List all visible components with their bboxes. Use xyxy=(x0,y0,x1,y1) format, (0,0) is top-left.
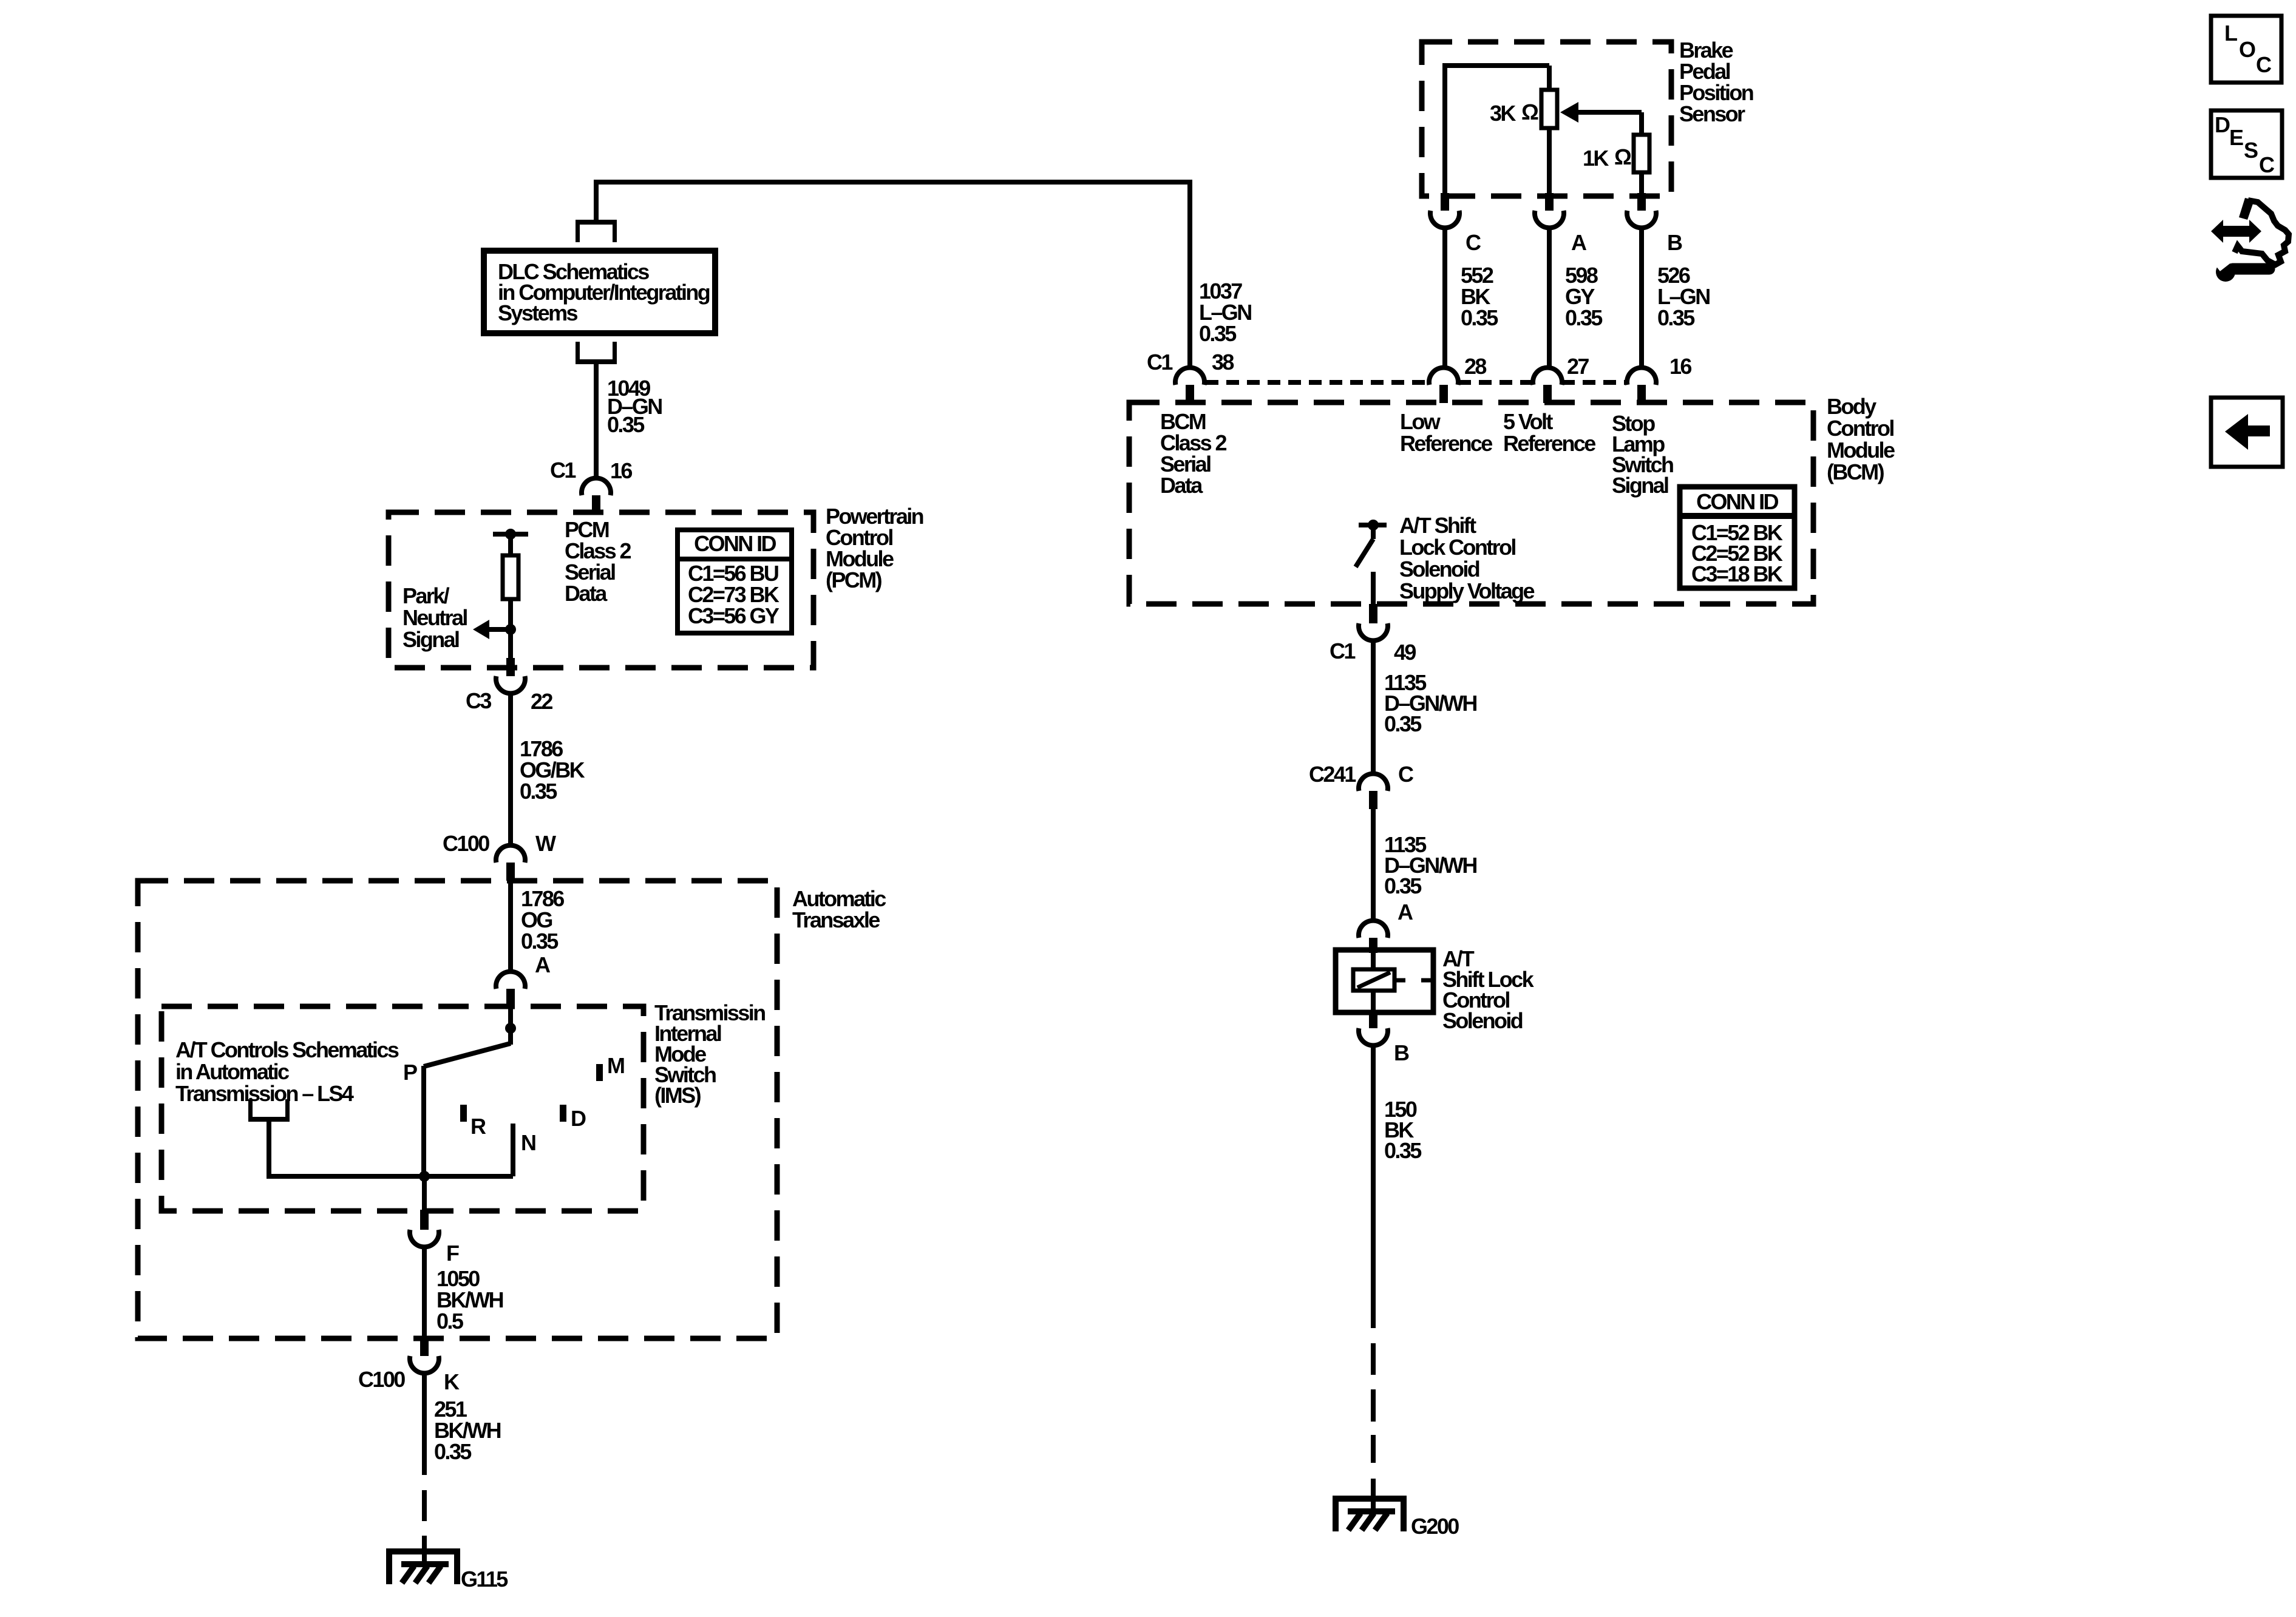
wire wire 251 BK/WH to G115 xyxy=(422,1373,427,1475)
wire BCM switch to pin 49 xyxy=(1371,572,1376,605)
svg-text:C: C xyxy=(2256,52,2272,77)
svg-text:K: K xyxy=(444,1369,460,1394)
connector solenoid pin A female half (dome) xyxy=(1359,921,1388,938)
svg-text:A: A xyxy=(535,952,551,977)
svg-text:28: 28 xyxy=(1464,354,1486,379)
svg-text:C3=18 BK: C3=18 BK xyxy=(1691,561,1783,586)
connector BCM pin 28 male pin (stub) xyxy=(1439,385,1448,403)
resistor PCM internal (Park/Neutral pull-up) xyxy=(503,555,518,599)
svg-text:A: A xyxy=(1398,900,1413,924)
svg-text:C3: C3 xyxy=(466,688,491,713)
svg-text:0.35: 0.35 xyxy=(520,779,557,804)
svg-text:22: 22 xyxy=(531,689,552,714)
svg-text:C100: C100 xyxy=(358,1367,405,1392)
svg-text:Low: Low xyxy=(1400,409,1441,434)
node IMS wiper node xyxy=(505,1023,516,1034)
connector C3 pin 22 male pin (stub) xyxy=(506,658,515,676)
in-line harness plug above DLC box xyxy=(576,220,617,225)
svg-text:0.35: 0.35 xyxy=(1384,873,1422,898)
svg-text:(PCM): (PCM) xyxy=(826,568,882,592)
svg-text:C: C xyxy=(2259,152,2275,177)
switch contact M xyxy=(596,1064,603,1081)
svg-text:(BCM): (BCM) xyxy=(1827,459,1884,484)
connector C100 pin W male pin (stub) xyxy=(506,863,515,881)
wire wire 1050 BK/WH inside transaxle xyxy=(422,1247,427,1340)
svg-text:C3=56 GY: C3=56 GY xyxy=(688,603,779,628)
svg-text:0.35: 0.35 xyxy=(1384,1138,1422,1163)
switch contact P xyxy=(421,1066,426,1176)
svg-text:P: P xyxy=(403,1060,417,1085)
svg-text:Transmission – LS4: Transmission – LS4 xyxy=(175,1081,354,1106)
connector BPP pin B male pin (stub) xyxy=(1637,193,1646,211)
connector BCM pin 38 female half (dome) xyxy=(1175,368,1204,385)
potentiometer wiper arrow xyxy=(1560,102,1578,123)
connector IMS pin A male pin (stub) xyxy=(506,989,515,1007)
A/T Shift Lock Control Solenoid L1 xyxy=(1336,950,1433,1012)
svg-text:Park/: Park/ xyxy=(402,583,450,608)
svg-text:Ω: Ω xyxy=(1614,144,1631,169)
Automatic Transaxle box xyxy=(138,881,777,1338)
svg-text:0.35: 0.35 xyxy=(1461,305,1498,330)
svg-text:A: A xyxy=(1571,230,1587,255)
Transmission Internal Mode Switch (IMS) box xyxy=(161,1006,644,1211)
svg-text:Lock Control: Lock Control xyxy=(1399,535,1515,560)
connector IMS pin F female half (cup) xyxy=(410,1230,439,1247)
node Park/Neutral signal tap xyxy=(505,624,516,635)
connector C241 pin C female half (dome) xyxy=(1359,774,1388,791)
svg-text:A/T Controls Schematics: A/T Controls Schematics xyxy=(175,1037,399,1062)
resistor 3K potentiometer element xyxy=(1541,90,1557,128)
svg-text:0.35: 0.35 xyxy=(521,929,559,954)
LOC navigation icon xyxy=(2211,16,2281,83)
connector solenoid pin B female half (cup) xyxy=(1359,1028,1388,1045)
Brake Pedal Position Sensor box xyxy=(1422,42,1671,196)
svg-text:B: B xyxy=(1394,1040,1409,1065)
svg-text:G115: G115 xyxy=(461,1567,508,1592)
connector BCM pin 49 female half (cup) xyxy=(1359,623,1388,640)
wire BPP internal left leg xyxy=(1442,66,1447,198)
wire wire 1786 OG/BK from PCM to C100 xyxy=(508,693,513,847)
connector BCM pin 28 female half (dome) xyxy=(1429,368,1458,385)
connector BCM pin 27 male pin (stub) xyxy=(1543,385,1552,403)
svg-text:C100: C100 xyxy=(443,831,489,856)
wire wire 150 BK solid part xyxy=(1371,1045,1376,1328)
connector IMS pin F male pin (stub) xyxy=(420,1210,429,1230)
wire top horizontal net from DLC to BCM C1-38 xyxy=(596,180,1192,185)
connector BCM pin 38 male pin (stub) xyxy=(1186,385,1194,403)
connector BPP pin A female half (cup) xyxy=(1535,211,1564,228)
wire wire 1135 D-GN/WH upper xyxy=(1371,640,1376,775)
connector BCM pin 16 male pin (stub) xyxy=(1637,385,1646,403)
wire wire 552 BK xyxy=(1442,228,1447,369)
connector C1 pin 16 male pin (stub) xyxy=(592,495,600,514)
svg-text:in Automatic: in Automatic xyxy=(175,1059,289,1084)
svg-text:G200: G200 xyxy=(1411,1514,1459,1539)
svg-text:Reference: Reference xyxy=(1400,431,1492,456)
svg-text:Systems: Systems xyxy=(498,300,577,325)
svg-text:Signal: Signal xyxy=(402,627,459,652)
wire 251 BK/WH dashed continuation xyxy=(422,1490,427,1521)
connector C241 pin C male pin (stub) xyxy=(1369,791,1377,809)
connector IMS pin A female half (dome) xyxy=(496,972,525,989)
svg-text:W: W xyxy=(535,831,556,856)
connector C1 harness dotted tie-line xyxy=(1206,380,1429,385)
ground G115 xyxy=(389,1551,457,1584)
svg-text:38: 38 xyxy=(1212,350,1234,375)
wire wire pin A to IMS wiper xyxy=(508,1007,513,1045)
svg-text:0.35: 0.35 xyxy=(434,1439,472,1464)
svg-text:Module: Module xyxy=(1827,438,1895,463)
svg-text:Neutral: Neutral xyxy=(402,605,467,630)
svg-text:Supply Voltage: Supply Voltage xyxy=(1399,578,1535,603)
connector solenoid pin B male pin (stub) xyxy=(1369,1010,1377,1028)
wire wire 598 GY xyxy=(1547,228,1552,369)
svg-text:Data: Data xyxy=(1160,473,1203,498)
wire PCM internal below resistor xyxy=(508,599,513,668)
connector C100 pin W female half (dome) xyxy=(496,846,525,863)
svg-text:0.35: 0.35 xyxy=(1199,321,1237,346)
svg-text:N: N xyxy=(521,1130,535,1155)
svg-text:Transaxle: Transaxle xyxy=(792,907,880,932)
svg-text:A/T Shift: A/T Shift xyxy=(1399,513,1476,538)
svg-text:27: 27 xyxy=(1567,354,1589,379)
svg-text:L: L xyxy=(2224,21,2237,46)
svg-text:Ω: Ω xyxy=(1521,100,1538,124)
svg-text:D: D xyxy=(2215,112,2230,137)
svg-text:Signal: Signal xyxy=(1612,473,1668,498)
connector BPP pin B female half (cup) xyxy=(1627,211,1656,228)
connector C1 pin 16 female half (dome) xyxy=(582,478,611,495)
resistor 1K resistor R2 xyxy=(1634,135,1649,172)
wire wire IMS common to pin F xyxy=(422,1176,427,1212)
svg-text:B: B xyxy=(1667,230,1682,255)
connector BPP pin C female half (cup) xyxy=(1430,211,1459,228)
svg-text:CONN ID: CONN ID xyxy=(694,531,776,556)
svg-text:49: 49 xyxy=(1394,640,1416,665)
wire DLC upper stem xyxy=(594,180,599,222)
svg-text:16: 16 xyxy=(610,458,632,483)
svg-text:C1: C1 xyxy=(1330,639,1356,663)
svg-text:C1: C1 xyxy=(1147,350,1173,375)
back-arrow navigation icon xyxy=(2211,398,2283,467)
svg-text:D: D xyxy=(571,1106,586,1131)
connector C3 pin 22 female half (cup) xyxy=(496,676,525,693)
svg-text:S: S xyxy=(2244,138,2258,163)
svg-text:E: E xyxy=(2229,125,2243,150)
svg-text:C: C xyxy=(1398,762,1414,787)
svg-text:Sensor: Sensor xyxy=(1679,101,1745,126)
switch contact R xyxy=(460,1105,467,1122)
BCM CONN ID table xyxy=(1680,487,1795,588)
node IMS common junction xyxy=(419,1171,430,1182)
svg-text:3K: 3K xyxy=(1490,101,1516,126)
connector BCM pin 27 female half (dome) xyxy=(1533,368,1562,385)
wire Park/Neutral signal arrow xyxy=(489,627,511,632)
wire PCM internal above resistor xyxy=(508,534,513,555)
wire wire 526 L-GN xyxy=(1639,228,1644,369)
wire BPP internal top link xyxy=(1442,63,1549,68)
connector C100 pin K male pin (stub) xyxy=(420,1338,429,1356)
svg-text:(IMS): (IMS) xyxy=(654,1083,701,1108)
wire BPP wiper to 1K xyxy=(1639,112,1644,135)
svg-text:16: 16 xyxy=(1669,354,1691,379)
svg-text:Data: Data xyxy=(565,581,608,606)
wire wire 1049 D-GN from DLC to PCM C1 pin 16 xyxy=(594,364,599,480)
wire BPP 3K low side to pin A xyxy=(1547,128,1552,198)
Body Control Module (BCM) box xyxy=(1129,402,1813,604)
wire BPP 1K to pin B xyxy=(1639,172,1644,198)
svg-text:C241: C241 xyxy=(1309,762,1356,787)
wire wire 1786 OG inside Automatic Transaxle xyxy=(508,881,513,973)
DESC navigation icon xyxy=(2211,110,2282,178)
svg-text:Solenoid: Solenoid xyxy=(1399,557,1479,581)
svg-text:0.5: 0.5 xyxy=(436,1309,464,1334)
svg-text:0.35: 0.35 xyxy=(607,412,645,437)
svg-text:R: R xyxy=(470,1114,486,1139)
svg-text:Reference: Reference xyxy=(1503,431,1595,456)
switch A/T shift lock control supply (BCM internal) xyxy=(1359,523,1387,527)
svg-text:0.35: 0.35 xyxy=(1384,711,1422,736)
PCM CONN ID table xyxy=(678,530,792,633)
wire LS4 reference stem xyxy=(267,1122,271,1179)
wire BPP internal to 3K xyxy=(1547,66,1552,90)
wire IMS wiper blade xyxy=(424,1043,511,1066)
connector BPP pin C male pin (stub) xyxy=(1441,193,1449,211)
in-line harness plug below DLC box xyxy=(576,359,617,364)
connector BCM pin 16 female half (dome) xyxy=(1627,368,1656,385)
svg-text:O: O xyxy=(2239,37,2255,62)
switch contact D xyxy=(560,1105,566,1122)
wire IMS common wire xyxy=(267,1174,513,1179)
svg-text:Body: Body xyxy=(1827,394,1877,419)
wire wire 1037 L-GN from DLC net to BCM xyxy=(1187,182,1192,369)
svg-text:CONN ID: CONN ID xyxy=(1696,489,1778,514)
svg-text:M: M xyxy=(607,1053,624,1078)
svg-text:F: F xyxy=(446,1241,459,1266)
reference plug to A/T Controls Schematics xyxy=(248,1117,290,1122)
ground G200 xyxy=(1336,1499,1404,1531)
svg-text:1K: 1K xyxy=(1583,146,1609,171)
wire wire 1135 D-GN/WH lower xyxy=(1371,809,1376,922)
Powertrain Control Module (PCM) box xyxy=(389,512,813,668)
connector solenoid pin A male pin (stub) xyxy=(1369,938,1377,953)
connector BCM pin 49 male pin (stub) xyxy=(1369,604,1377,623)
svg-text:0.35: 0.35 xyxy=(1657,305,1695,330)
svg-text:0.35: 0.35 xyxy=(1565,305,1603,330)
svg-text:5 Volt: 5 Volt xyxy=(1503,409,1553,434)
svg-text:C1: C1 xyxy=(550,458,576,483)
svg-text:Control: Control xyxy=(1827,416,1894,441)
svg-text:Solenoid: Solenoid xyxy=(1442,1008,1523,1033)
wire PCM internal node bar xyxy=(493,532,528,537)
connector C100 pin K female half (cup) xyxy=(410,1356,439,1373)
wire 150 BK dashed continuation xyxy=(1371,1343,1376,1375)
node PCM internal junction xyxy=(505,529,516,540)
connector BPP pin A male pin (stub) xyxy=(1545,193,1554,211)
switch contact N xyxy=(511,1124,515,1176)
tools/part navigation icon (double arrow, part outline, wrench) xyxy=(2211,198,2289,282)
svg-text:C: C xyxy=(1466,230,1481,255)
DLC Schematics reference box xyxy=(484,251,715,333)
